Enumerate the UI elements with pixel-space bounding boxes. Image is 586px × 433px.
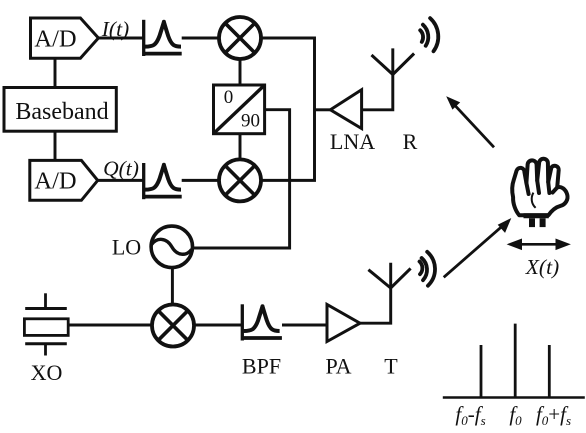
svg-text:LNA: LNA [330,129,375,154]
svg-text:XO: XO [31,360,63,385]
svg-text:LO: LO [112,235,141,260]
svg-text:90: 90 [241,111,260,132]
svg-text:R: R [403,129,418,154]
svg-text:X(t): X(t) [525,255,559,279]
svg-text:BPF: BPF [242,353,281,378]
svg-text:Baseband: Baseband [15,99,108,125]
svg-text:T: T [384,353,398,378]
svg-text:A/D: A/D [34,25,76,52]
svg-text:f0+fs: f0+fs [536,402,571,428]
svg-text:Q(t): Q(t) [103,157,139,181]
svg-text:I(t): I(t) [101,17,129,41]
svg-text:0: 0 [224,87,234,108]
svg-text:PA: PA [325,353,351,378]
svg-text:A/D: A/D [34,168,76,195]
